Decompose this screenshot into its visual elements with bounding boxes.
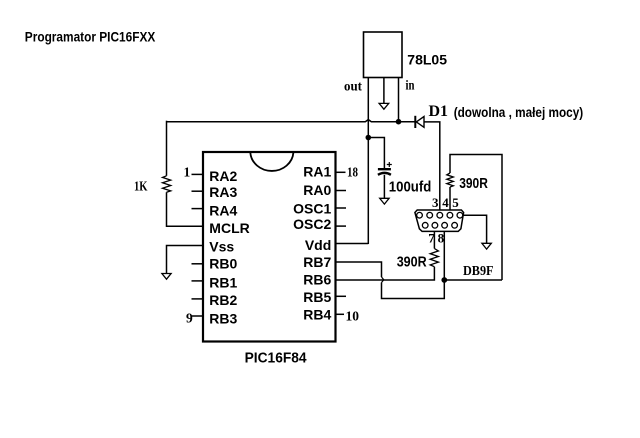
svg-text:OSC2: OSC2 [293, 216, 331, 232]
resistor R3 390R (lower) zigzag [430, 249, 438, 267]
DB9 pin 7 circle [432, 222, 438, 228]
pin stub RA0 [336, 190, 346, 192]
svg-text:RB5: RB5 [303, 289, 331, 305]
wire rail down-left to 1K [166, 121, 168, 176]
pin stub RB3 [192, 315, 204, 317]
svg-text:18: 18 [347, 164, 358, 179]
svg-text:390R: 390R [397, 255, 427, 271]
svg-text:1K: 1K [134, 179, 148, 194]
svg-text:100ufd: 100ufd [389, 180, 432, 196]
ground under capacitor [380, 198, 389, 204]
node junction 78L05 in / diode [396, 119, 402, 125]
svg-text:9: 9 [186, 310, 193, 325]
svg-text:4: 4 [442, 195, 449, 210]
svg-text:10: 10 [346, 308, 360, 323]
wire RB6 to resistor [336, 267, 434, 280]
wire diode anode to corner [424, 122, 440, 212]
svg-text:7: 7 [428, 230, 435, 245]
svg-text:in: in [406, 79, 415, 94]
node junction pin8/RB7/right rail [441, 277, 447, 283]
IC U1 notch [250, 153, 293, 171]
DB9 pin 1 circle [417, 212, 423, 218]
svg-text:RB4: RB4 [303, 306, 331, 322]
svg-text:1: 1 [184, 164, 191, 179]
DB9 pin 5 circle [457, 212, 463, 218]
wire 78L05 gnd pin down [383, 78, 385, 104]
ground under 78L05 [379, 103, 389, 109]
DB9 connector J1 outline [415, 210, 464, 231]
svg-text:5: 5 [452, 195, 459, 210]
pin stub RA3 [192, 190, 204, 192]
svg-text:RA3: RA3 [209, 184, 237, 200]
resistor R1 1K zigzag [163, 176, 171, 192]
svg-text:RB2: RB2 [209, 292, 237, 308]
svg-text:MCLR: MCLR [209, 220, 249, 236]
pin stub RA1 [336, 171, 346, 173]
svg-text:RB0: RB0 [209, 255, 237, 271]
svg-text:8: 8 [438, 230, 445, 245]
wire top rail (Vpp net) with hop over regulator out wire [167, 120, 416, 122]
DB9 pin 2 circle [427, 212, 433, 218]
wire R2 top to right rail [450, 155, 502, 281]
svg-text:PIC16F84: PIC16F84 [245, 350, 307, 366]
pin stub RB4 [336, 313, 344, 315]
wire cap bottom to ground [383, 175, 385, 199]
wire Vss to ground [167, 246, 204, 274]
wire junction to right rail [444, 279, 502, 281]
svg-text:390R: 390R [459, 176, 488, 192]
diode D1 triangle [416, 117, 424, 128]
svg-text:RA1: RA1 [303, 164, 331, 180]
svg-text:OSC1: OSC1 [293, 200, 331, 216]
svg-text:DB9F: DB9F [463, 264, 494, 279]
pin stub RA2 [192, 173, 204, 175]
pin stub OSC2 [336, 225, 346, 227]
capacitor C1 top plate [378, 168, 391, 170]
wire 78L05 out pin down to Vdd (crosses rail, no connection) [367, 78, 369, 245]
resistor R2 390R (upper) zigzag [447, 173, 454, 187]
capacitor C1 plus sign [387, 162, 392, 167]
pin stub RB1 [192, 280, 204, 282]
wire DB9 pin5 to ground [463, 215, 487, 243]
pin stub OSC1 [336, 207, 346, 209]
pin stub RB5 [336, 295, 346, 297]
DB9 pin 3 circle [437, 212, 443, 218]
DB9 pin 8 circle [442, 222, 448, 228]
svg-text:3: 3 [432, 195, 439, 210]
pin stub RB2 [192, 298, 204, 300]
svg-text:Programator PIC16FXX: Programator PIC16FXX [25, 29, 156, 44]
svg-text:RB7: RB7 [303, 254, 331, 270]
DB9 pin 9 circle [452, 222, 458, 228]
svg-text:RA2: RA2 [209, 168, 237, 184]
svg-text:78L05: 78L05 [407, 51, 447, 67]
wire RB7 right and down [336, 262, 382, 277]
wire cap branch [368, 138, 384, 169]
ground at DB9 pin5 [482, 243, 491, 249]
diode D1 cathode bar [414, 116, 416, 128]
wire R3 top to DB9 pin7 [433, 228, 435, 249]
ground under Vss [162, 274, 171, 280]
regulator U2 78L05 box [364, 32, 403, 78]
svg-text:RB1: RB1 [209, 275, 237, 291]
svg-text:RA0: RA0 [303, 182, 331, 198]
wire 1K bottom to MCLR [167, 192, 204, 226]
wire R2 bottom to DB9 pin4 [449, 187, 451, 213]
DB9 pin 4 circle [447, 212, 453, 218]
IC U1 PIC16F84 body [203, 152, 336, 342]
svg-text:RB3: RB3 [209, 311, 237, 327]
svg-text:Vss: Vss [209, 239, 234, 255]
svg-text:out: out [344, 80, 362, 95]
pin stub RA4 [192, 208, 204, 210]
node junction cap branch [366, 135, 372, 141]
wire RB7 under-path down and right [382, 280, 445, 299]
wire DB9 pin8 down to junction [443, 228, 445, 280]
capacitor C1 bottom plate [378, 173, 391, 175]
DB9 pin 6 circle [422, 222, 428, 228]
wire RB7 crossover jog [382, 277, 384, 283]
svg-text:(dowolna , małej mocy): (dowolna , małej mocy) [454, 105, 584, 120]
svg-text:RB6: RB6 [303, 272, 331, 288]
svg-text:Vdd: Vdd [305, 237, 331, 253]
svg-text:D1: D1 [429, 103, 449, 120]
pin stub RB0 [192, 263, 204, 265]
svg-text:RA4: RA4 [209, 203, 237, 219]
wire Vdd up to rail [336, 243, 368, 245]
wire 78L05 in pin down to rail [398, 78, 400, 122]
